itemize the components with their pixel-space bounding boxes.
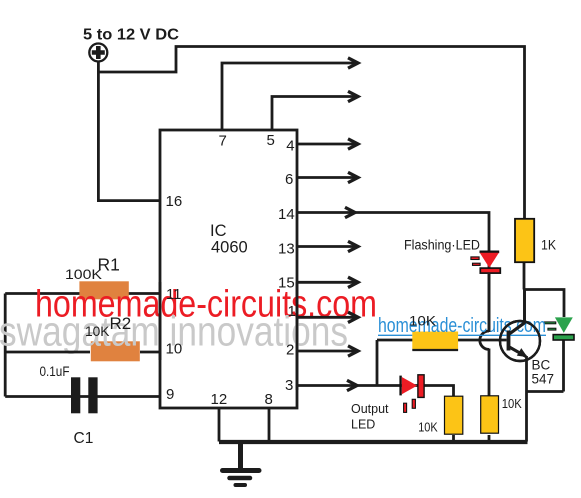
svg-text:10K: 10K [85, 323, 110, 339]
wire pin 7 output [222, 63, 355, 130]
wire emitter down to ground rail [525, 356, 528, 442]
svg-text:13: 13 [278, 241, 295, 258]
transistor Q1 emitter arrow [517, 348, 528, 357]
svg-text:0.1uF: 0.1uF [40, 364, 70, 379]
wire pin 3 to output LED and 10K [297, 386, 454, 397]
svg-text:LED: LED [351, 418, 375, 432]
svg-text:6: 6 [285, 171, 293, 188]
svg-text:Output: Output [351, 402, 389, 416]
wire pin 5 output [272, 97, 355, 131]
resistor R2 10K [91, 341, 140, 361]
arrow pin 4 [348, 139, 358, 149]
wire R2 row to pin 10 [5, 351, 160, 354]
resistor R6 10K base [412, 332, 458, 350]
transistor Q1 BC547 [500, 321, 540, 361]
svg-text:5: 5 [267, 132, 275, 149]
svg-text:R1: R1 [98, 255, 120, 275]
wire below 10K resistor R4 [452, 435, 455, 442]
svg-text:10K: 10K [409, 314, 436, 329]
arrow pin 2 [348, 346, 358, 356]
wire pin 8 to ground rail [268, 408, 271, 442]
resistor R1 100K [79, 281, 128, 299]
wire green LED cathode to emitter [526, 340, 564, 392]
svg-text:10K: 10K [418, 421, 438, 435]
svg-text:5 to 12 V DC: 5 to 12 V DC [83, 27, 179, 44]
resistor R3 1K [515, 219, 534, 262]
svg-text:14: 14 [278, 206, 295, 223]
resistor R5 10K flashing [481, 396, 499, 433]
wire supply top rail to 1K resistor [98, 47, 525, 219]
wire bottom ground rail [219, 440, 528, 444]
svg-text:15: 15 [278, 275, 295, 292]
svg-text:R2: R2 [110, 314, 132, 333]
svg-text:BC: BC [532, 358, 551, 373]
transistor Q1 redraw over watermark [500, 321, 540, 361]
arrow pin 3 [347, 380, 357, 390]
wire pin 6 output [297, 176, 355, 179]
arrow pin 1 [348, 312, 358, 322]
wire R1 row to pin 11 [5, 292, 160, 295]
wire pin 1 output [297, 316, 355, 319]
svg-text:11: 11 [166, 286, 182, 303]
svg-text:Flashing·LED: Flashing·LED [404, 238, 480, 253]
wire pin 4 output [297, 143, 355, 146]
wire pin 14 to flashing LED [297, 213, 489, 333]
wire collector over watermark [523, 290, 526, 324]
wire C1 row to pin 9 [5, 395, 160, 398]
watermark blue underline [378, 334, 546, 336]
flashing LED D1 red [471, 252, 500, 273]
svg-text:16: 16 [166, 193, 183, 210]
wire pin 12 to ground rail [218, 408, 221, 442]
wire collector [523, 290, 526, 324]
svg-text:3: 3 [285, 377, 293, 394]
ground [223, 442, 260, 486]
IC left edge segment over watermark [159, 282, 162, 360]
wire left bus [4, 294, 7, 397]
value 10K for R6 over watermark [409, 314, 436, 329]
svg-text:7: 7 [219, 133, 227, 150]
arrow pin 7 [348, 58, 358, 68]
capacitor C1 [71, 377, 98, 413]
supply positive terminal [89, 44, 107, 62]
arrow pin 6 [348, 172, 358, 182]
wire 1K bottom to collector junction and green LED anode [524, 262, 564, 317]
resistor R4 10K output [445, 396, 463, 434]
svg-text:1: 1 [288, 303, 296, 320]
output LED D2 red [401, 375, 425, 413]
svg-text:1K: 1K [541, 238, 556, 253]
svg-text:8: 8 [265, 391, 273, 408]
svg-text:547: 547 [532, 372, 555, 387]
svg-text:IC: IC [210, 222, 227, 240]
svg-text:4060: 4060 [211, 239, 248, 257]
arrow pin 13 [348, 241, 358, 251]
arrow pin 15 [348, 277, 358, 287]
arrow pin 14 [345, 207, 355, 217]
wire pin 15 output [297, 281, 355, 284]
svg-text:10K: 10K [502, 397, 523, 411]
wire base resistor row [377, 339, 507, 342]
wire crossover hop [480, 331, 489, 349]
wire link base row down to pin 3 row [376, 340, 379, 386]
svg-text:2: 2 [286, 342, 294, 359]
svg-text:10: 10 [166, 341, 183, 358]
IC U1 4060 body [160, 130, 297, 408]
IC right edge segment over watermark [296, 282, 299, 390]
green LED D3 [544, 317, 574, 340]
wire supply positive down to pin 16 [98, 62, 160, 201]
wire flashing LED cathode to 10K resistor R5 [488, 349, 491, 442]
svg-text:12: 12 [211, 391, 228, 408]
arrow pin 5 [348, 91, 358, 101]
wire pin 13 output [297, 245, 355, 248]
svg-text:C1: C1 [74, 430, 94, 447]
svg-text:9: 9 [166, 386, 174, 403]
wire flashing LED cathode over watermark [488, 273, 491, 332]
wire pin 2 output [297, 350, 355, 353]
svg-text:4: 4 [286, 138, 294, 155]
